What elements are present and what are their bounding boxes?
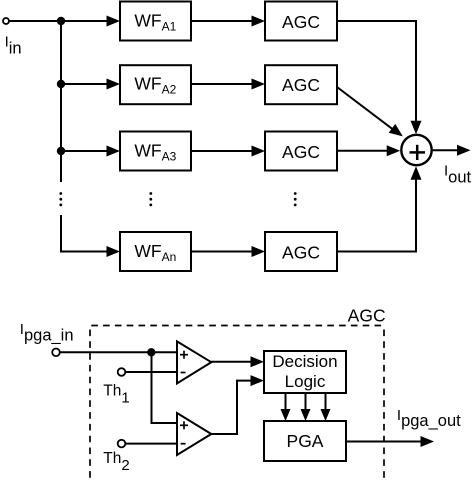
wire Decision Logic to PGA 2 <box>301 393 311 421</box>
ellipsis left column <box>59 192 62 206</box>
comparator U2 <box>177 413 211 455</box>
comparator U1 <box>177 341 211 383</box>
wire to WF_A3 <box>61 146 120 157</box>
block WF_A1 <box>120 2 191 41</box>
wire Th2 to comparator U2 <box>126 443 177 445</box>
svg-text:Ipga_out: Ipga_out <box>397 407 461 430</box>
wire to WF_A2 <box>61 79 120 90</box>
svg-text:Logic: Logic <box>285 372 326 391</box>
block AGCn <box>265 232 337 271</box>
terminal Th2 <box>118 440 126 448</box>
wire WF_An to AGCn <box>191 246 265 257</box>
wire WF_A1 to AGC1 <box>191 16 265 27</box>
wire comparator U2 to Decision Logic <box>211 375 264 434</box>
junction pga_in <box>147 348 155 356</box>
summing junction <box>401 135 431 165</box>
wire junction to comparator U2 <box>152 352 178 423</box>
svg-text:AGC: AGC <box>282 12 320 32</box>
svg-text:Th2: Th2 <box>103 450 129 474</box>
wire I_pga_in to comparator U1 <box>60 351 176 353</box>
wire summer to output <box>433 145 471 156</box>
terminal Th1 <box>118 368 126 376</box>
dashed box AGC detail <box>90 326 384 482</box>
block AGC3 <box>265 132 337 171</box>
wire vertical bus <box>60 21 62 182</box>
junction row2 <box>57 80 65 88</box>
block AGC1 <box>265 2 337 41</box>
wire WF_A3 to AGC3 <box>191 146 265 157</box>
svg-text:AGC: AGC <box>348 306 386 326</box>
block AGC2 <box>265 65 337 104</box>
svg-text:AGC: AGC <box>282 242 320 262</box>
block WF_A3 <box>120 132 191 171</box>
svg-text:Decision: Decision <box>272 352 337 371</box>
svg-text:Th1: Th1 <box>103 382 129 406</box>
wire AGC2 to summer <box>337 87 403 136</box>
wire AGCn to summer <box>337 166 422 251</box>
terminal I_pga_in <box>52 349 60 357</box>
ellipsis WF column <box>149 192 152 206</box>
junction row3 <box>57 147 65 155</box>
wire Decision Logic to PGA 1 <box>281 393 291 421</box>
block WF_A2 <box>120 65 191 104</box>
wire AGC1 to summer <box>337 21 422 134</box>
wire PGA to output <box>346 436 434 447</box>
svg-text:Ipga_in: Ipga_in <box>20 321 74 344</box>
svg-text:PGA: PGA <box>287 431 324 451</box>
wire AGC3 to summer <box>337 145 400 156</box>
input terminal I_in <box>3 18 9 24</box>
wire input to WF_A1 <box>10 16 121 27</box>
block WF_An <box>120 232 191 271</box>
svg-text:AGC: AGC <box>282 142 320 162</box>
wire to WF_An <box>61 215 120 257</box>
wire Th1 to comparator U1 <box>126 371 177 373</box>
svg-text:AGC: AGC <box>282 75 320 95</box>
wire WF_A2 to AGC2 <box>191 79 265 90</box>
svg-text:Iin: Iin <box>5 34 22 58</box>
block Decision Logic <box>264 351 346 393</box>
block PGA <box>264 421 346 461</box>
svg-text:Iout: Iout <box>444 163 472 187</box>
wire comparator U1 to Decision Logic <box>211 356 264 367</box>
ellipsis AGC column <box>294 192 297 206</box>
junction row1 <box>57 17 65 25</box>
wire Decision Logic to PGA 3 <box>321 393 331 421</box>
